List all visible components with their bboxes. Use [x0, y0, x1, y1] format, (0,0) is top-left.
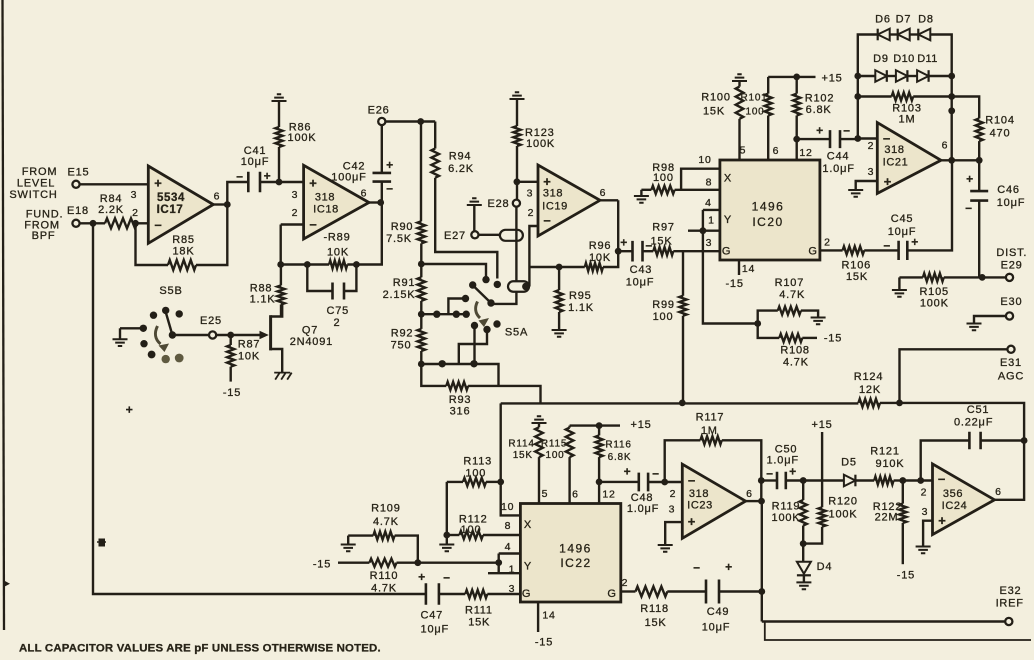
svg-text:Y: Y — [724, 214, 732, 226]
svg-text:+: + — [620, 236, 628, 250]
op-amp U IC24 356 — [933, 464, 995, 535]
junction C49 E32 — [758, 588, 765, 595]
svg-text:+: + — [386, 158, 394, 172]
junction D4 node — [800, 540, 807, 547]
switch S5A bottom dots — [439, 360, 478, 367]
resistor R119 — [772, 481, 807, 544]
svg-text:IC21: IC21 — [883, 157, 909, 169]
svg-text:15K: 15K — [645, 617, 667, 629]
resistor R89 — [323, 232, 350, 269]
pin label 2 IC18 — [292, 207, 299, 219]
resistor R110 — [338, 559, 418, 595]
pin label 3 IC18 — [292, 189, 299, 201]
svg-text:6: 6 — [361, 188, 368, 200]
stray mark left edge — [4, 581, 10, 587]
capacitor C43 — [618, 236, 654, 289]
svg-text:6.8K: 6.8K — [608, 452, 632, 463]
ground R98 — [634, 190, 649, 203]
svg-text:+: + — [624, 465, 632, 479]
svg-text:FROM: FROM — [22, 166, 58, 178]
svg-text:100: 100 — [545, 450, 564, 461]
node E28 label — [488, 198, 510, 210]
svg-text:4: 4 — [505, 541, 512, 553]
capacitor C46 — [965, 160, 1025, 277]
svg-text:3: 3 — [922, 506, 929, 518]
junction C48 pin2 — [661, 479, 668, 486]
switch S5A contact E loop — [448, 295, 469, 314]
pin label 10 IC20 — [698, 154, 711, 166]
svg-text:D9: D9 — [873, 53, 889, 65]
label FROM LEVEL SWITCH — [9, 166, 57, 201]
wire E32 line — [762, 620, 1005, 622]
switch S5B contacts — [140, 307, 183, 359]
node E26 label — [368, 105, 390, 117]
resistor R102 — [793, 77, 834, 160]
ground E30 — [967, 316, 1006, 330]
svg-text:R124: R124 — [854, 371, 884, 383]
switch S5A contact G loop — [459, 326, 491, 364]
wire IC20 pin10 jumper — [681, 169, 720, 190]
transistor Q7 2N4091 — [260, 304, 334, 372]
svg-text:3: 3 — [292, 189, 299, 201]
pin label 6 IC21 — [942, 140, 949, 152]
svg-text:18K: 18K — [173, 246, 195, 258]
svg-text:3: 3 — [669, 504, 676, 516]
svg-text:G: G — [522, 588, 531, 600]
svg-text:+: + — [309, 176, 317, 191]
junction +15 R116 — [596, 422, 603, 429]
wire IC18 pin2 — [281, 225, 304, 265]
junction rail R99 — [679, 400, 686, 407]
svg-text:G: G — [808, 246, 817, 258]
svg-text:+: + — [418, 570, 426, 584]
pin label 6 IC20 — [773, 145, 780, 157]
pin label 2 IC22 — [622, 577, 629, 589]
svg-text:R111: R111 — [465, 604, 493, 616]
wire R84 to IC17 pin2 — [137, 222, 148, 224]
diode D5 — [841, 456, 857, 486]
resistor R90 — [386, 122, 425, 265]
svg-text:100K: 100K — [772, 512, 801, 524]
diode D11 — [917, 53, 938, 82]
wire output up to C41 — [227, 182, 248, 205]
svg-text:15K: 15K — [651, 236, 673, 248]
junction IC23 output — [758, 498, 765, 505]
junction R112 ground — [443, 532, 450, 539]
pin label 3 IC21 — [868, 166, 875, 178]
terminal E30 — [1006, 312, 1013, 319]
svg-text:4.7K: 4.7K — [779, 289, 805, 301]
junction E18 rail — [90, 220, 97, 227]
svg-text:E18: E18 — [67, 205, 89, 217]
svg-text:E31: E31 — [1000, 357, 1022, 369]
diode D8 — [918, 14, 934, 41]
wire IC18 output node — [369, 201, 382, 203]
ground D4 — [796, 582, 811, 589]
pin label 6 IC18 — [361, 188, 368, 200]
svg-text:R121: R121 — [870, 446, 900, 458]
wire Y input IC22 — [418, 562, 499, 564]
switch S5B label — [159, 285, 182, 297]
svg-text:IC20: IC20 — [752, 215, 783, 229]
power label -15 IC20 — [725, 278, 743, 290]
svg-text:6: 6 — [214, 191, 221, 203]
pin label 6 IC17 — [214, 191, 221, 203]
resistor R105 — [899, 273, 1006, 309]
terminal E15 — [72, 181, 79, 188]
svg-text:-15: -15 — [725, 278, 743, 290]
switch S5B rotate arrow — [155, 326, 169, 352]
ground R109 — [341, 536, 356, 552]
resistor R101 — [740, 77, 771, 160]
wire pin10 IC22 — [501, 482, 521, 516]
svg-text:R113: R113 — [463, 456, 492, 468]
ground R123 — [510, 92, 525, 99]
wire E28 to wiper pivot — [491, 207, 516, 304]
svg-text:R114: R114 — [508, 439, 534, 450]
diode D7 — [896, 14, 912, 41]
ground R107 — [811, 318, 826, 325]
terminal E26 — [378, 118, 385, 125]
svg-text:318: 318 — [315, 192, 335, 204]
pin label 2 IC21 — [868, 140, 875, 152]
svg-text:–: – — [236, 169, 243, 183]
pin label 5 IC22 — [542, 488, 549, 500]
power label -15 R122 — [897, 570, 915, 582]
svg-text:10μF: 10μF — [626, 277, 655, 289]
node E25 label — [200, 315, 222, 327]
svg-text:E30: E30 — [1000, 296, 1022, 308]
svg-text:8: 8 — [505, 520, 512, 532]
svg-text:1.1K: 1.1K — [250, 294, 276, 306]
svg-text:+: + — [966, 172, 974, 186]
svg-text:C43: C43 — [630, 264, 653, 276]
svg-text:2: 2 — [132, 207, 139, 219]
switch S5B contacts olive — [162, 354, 184, 364]
junction C43 tap — [615, 248, 622, 255]
svg-text:4: 4 — [705, 197, 712, 209]
wire output down to C49 E32 — [761, 501, 763, 621]
switch S5A contact F — [471, 322, 478, 364]
junction IC17 output — [224, 201, 231, 208]
svg-text:–: – — [309, 217, 317, 232]
junction R119 top — [800, 477, 807, 484]
wire R121 to pin2 — [903, 479, 933, 481]
diode D6 — [875, 14, 891, 41]
wire E15 to IC17 pin3 — [80, 183, 149, 185]
label FUND. FROM BPF — [24, 209, 63, 243]
pin label 12 IC20 — [799, 147, 812, 159]
wire E26 node — [385, 120, 435, 122]
svg-text:-15: -15 — [824, 333, 842, 345]
svg-text:15K: 15K — [513, 450, 533, 461]
resistor R107 — [758, 277, 818, 324]
svg-text:R104: R104 — [985, 114, 1015, 126]
junction feedback left — [277, 261, 284, 268]
node DIST E29 label — [996, 247, 1027, 272]
svg-text:IC24: IC24 — [942, 500, 968, 512]
ground R100 — [732, 74, 747, 81]
wire wiper to E25 — [172, 334, 209, 336]
wire +15 rail top — [768, 76, 815, 78]
pin label 2 IC23 — [670, 488, 677, 500]
svg-text:D7: D7 — [896, 14, 912, 26]
pin label 8 IC20 — [706, 177, 713, 189]
resistor R87 — [227, 335, 260, 382]
svg-text:2: 2 — [622, 577, 629, 589]
svg-text:R95: R95 — [569, 290, 592, 302]
switch S5A wiper — [474, 286, 495, 307]
svg-text:+: + — [816, 124, 824, 138]
resistor R108 — [758, 324, 817, 369]
power label -15 R87 — [223, 387, 241, 399]
svg-text:+: + — [154, 176, 162, 191]
svg-text:316: 316 — [450, 406, 471, 418]
svg-text:1M: 1M — [899, 114, 916, 126]
junction Y node IC20 — [700, 227, 707, 234]
junction rail E31 — [896, 400, 903, 407]
wire long rail E18 down to C47 — [93, 223, 426, 594]
scan border line left — [3, 0, 5, 630]
node E18 label — [67, 205, 89, 217]
pin label 4 IC20 — [705, 197, 712, 209]
ground E27 — [467, 198, 482, 231]
wire IC21 output — [941, 159, 979, 161]
plug capsule P1 — [500, 230, 523, 241]
svg-text:E25: E25 — [200, 315, 222, 327]
ground R86 — [272, 94, 287, 101]
svg-text:–: – — [843, 123, 850, 137]
pin label 6 IC24 — [995, 486, 1002, 498]
node E32 IREF label — [996, 585, 1024, 610]
svg-text:R91: R91 — [393, 277, 416, 289]
svg-text:14: 14 — [542, 610, 555, 622]
wire C50 to D5 — [786, 479, 844, 481]
pin label 14 IC20 — [742, 263, 755, 275]
svg-text:R100: R100 — [701, 92, 731, 104]
junction IC21 output — [948, 157, 955, 164]
capacitor C75 — [307, 265, 356, 330]
svg-text:1496: 1496 — [752, 200, 785, 214]
junction IC17 pin2 — [132, 220, 139, 227]
svg-text:E28: E28 — [488, 198, 510, 210]
resistor R124 — [854, 371, 884, 407]
junction C44 tap — [793, 136, 800, 143]
plug capsule P2 — [508, 281, 529, 292]
svg-text:E15: E15 — [68, 167, 90, 179]
junction R104 branch — [948, 107, 955, 114]
op-amp U IC23 318 — [682, 464, 745, 538]
svg-text:10μF: 10μF — [421, 623, 450, 635]
svg-text:6.8K: 6.8K — [806, 104, 832, 116]
junction R121 R122 — [899, 477, 906, 484]
svg-text:10: 10 — [698, 154, 711, 166]
resistor R86 — [275, 101, 316, 182]
svg-text:6: 6 — [942, 140, 949, 152]
svg-text:R109: R109 — [371, 503, 401, 515]
resistor R95 — [556, 267, 594, 330]
op-amp U IC21 318 — [877, 123, 941, 194]
svg-text:R94: R94 — [449, 151, 472, 163]
svg-text:10K: 10K — [589, 252, 611, 264]
node E30 label — [1000, 296, 1022, 308]
svg-text:–: – — [543, 213, 551, 228]
wire D11 to rail — [929, 75, 952, 77]
capacitor C49 — [693, 560, 733, 634]
junction C50 tap — [758, 477, 765, 484]
svg-text:R115: R115 — [541, 439, 567, 450]
svg-text:+15: +15 — [811, 419, 832, 431]
svg-text:+: + — [789, 465, 797, 479]
svg-text:10K: 10K — [238, 351, 260, 363]
svg-text:-15: -15 — [313, 559, 331, 571]
junction R87 — [227, 332, 234, 339]
junction IC18 output — [377, 199, 384, 206]
pin label 14 IC22 — [542, 610, 555, 622]
resistor R99 — [652, 251, 686, 403]
junction R103 right — [948, 93, 955, 100]
svg-text:BPF: BPF — [32, 230, 56, 242]
svg-text:R93: R93 — [449, 394, 472, 406]
junction C51 right — [1021, 437, 1028, 444]
wire AGC rail — [501, 403, 1024, 441]
capacitor C48 — [599, 465, 682, 516]
svg-text:E26: E26 — [368, 105, 390, 117]
wire C49 to E32 node — [719, 590, 762, 592]
node E27 label — [444, 230, 466, 242]
svg-text:2: 2 — [824, 237, 831, 249]
wire S5A bottom row — [421, 364, 498, 386]
svg-text:6: 6 — [773, 145, 780, 157]
svg-text:100K: 100K — [920, 297, 949, 309]
ground Q7 source — [274, 373, 292, 380]
wire Y to R107 R108 — [703, 231, 758, 324]
node E15 label — [68, 167, 90, 179]
switch S5A contact B — [469, 281, 476, 288]
svg-text:10: 10 — [501, 501, 514, 513]
svg-text:ALL CAPACITOR VALUES ARE pF UN: ALL CAPACITOR VALUES ARE pF UNLESS OTHER… — [19, 643, 381, 655]
svg-text:D5: D5 — [841, 456, 857, 468]
pin label 2 IC19 — [528, 207, 535, 219]
svg-text:C47: C47 — [421, 610, 444, 622]
svg-text:10μF: 10μF — [702, 622, 731, 634]
svg-text:–: – — [688, 473, 696, 488]
wire E31 branch — [900, 349, 1008, 403]
svg-text:6: 6 — [746, 488, 753, 500]
junction R107 R108 — [754, 320, 761, 327]
pin label 5 IC20 — [740, 145, 747, 157]
svg-text:2: 2 — [333, 317, 340, 329]
svg-text:R97: R97 — [652, 222, 675, 234]
svg-text:3: 3 — [131, 189, 138, 201]
svg-text:R116: R116 — [605, 440, 631, 451]
junction Y node IC22 — [495, 559, 502, 566]
svg-text:1.0μF: 1.0μF — [627, 503, 659, 515]
svg-text:100K: 100K — [526, 138, 555, 150]
junction C75 right — [353, 261, 360, 268]
svg-text:100K: 100K — [829, 509, 858, 521]
svg-text:–: – — [883, 238, 890, 252]
svg-text:7.5K: 7.5K — [386, 233, 412, 245]
wire D7 D8 — [909, 33, 918, 35]
svg-text:X: X — [724, 173, 732, 185]
IC22 pin14 stub — [537, 602, 539, 632]
svg-text:100: 100 — [461, 524, 482, 536]
wire +15 R115 R116 — [570, 424, 620, 426]
terminal E18 — [72, 220, 79, 227]
resistor R84 — [98, 193, 137, 228]
svg-text:S5A: S5A — [505, 327, 528, 339]
svg-text:Q7: Q7 — [302, 325, 318, 337]
svg-text:AGC: AGC — [998, 370, 1024, 382]
svg-text:R88: R88 — [250, 282, 273, 294]
svg-text:10μF: 10μF — [997, 197, 1026, 209]
resistor R92 — [391, 314, 425, 364]
svg-text:D6: D6 — [875, 14, 891, 26]
svg-text:–: – — [693, 560, 700, 574]
svg-text:910K: 910K — [876, 458, 905, 470]
plug tip P2 — [522, 283, 530, 291]
pin label 10 IC22 — [501, 501, 514, 513]
svg-text:+: + — [688, 514, 696, 529]
node E31 AGC label — [998, 357, 1024, 382]
svg-text:10μF: 10μF — [888, 226, 917, 238]
resistor R122 — [873, 481, 907, 565]
svg-text:E32: E32 — [1000, 585, 1022, 597]
svg-text:2: 2 — [528, 207, 535, 219]
junction R95 R96 — [556, 264, 563, 271]
wire diode rail left — [858, 35, 878, 139]
svg-text:318: 318 — [689, 488, 709, 500]
svg-text:2: 2 — [670, 488, 677, 500]
terminal E28 — [513, 200, 520, 207]
svg-text:X: X — [524, 519, 532, 531]
svg-text:C51: C51 — [967, 404, 990, 416]
ground R105 — [892, 277, 907, 296]
svg-text:IC18: IC18 — [313, 204, 339, 216]
diode D4 — [797, 544, 832, 583]
terminal E25 — [209, 331, 216, 338]
svg-text:C46: C46 — [997, 184, 1020, 196]
svg-text:R118: R118 — [640, 603, 669, 615]
switch S5A contact D — [494, 281, 501, 288]
svg-text:D8: D8 — [918, 14, 934, 26]
svg-text:+: + — [938, 513, 946, 528]
svg-text:R108: R108 — [780, 345, 810, 357]
diode D9 — [873, 53, 889, 82]
svg-text:IC23: IC23 — [687, 500, 713, 512]
svg-text:R85: R85 — [172, 234, 195, 246]
svg-text:6: 6 — [572, 489, 579, 501]
wire E27 to plug — [479, 234, 500, 236]
svg-text:+15: +15 — [821, 72, 842, 84]
svg-text:R102: R102 — [805, 92, 835, 104]
junction C75 left — [304, 261, 311, 268]
pin label 6 IC23 — [746, 488, 753, 500]
ground S5B — [113, 328, 128, 346]
svg-text:R96: R96 — [589, 240, 612, 252]
svg-text:1496: 1496 — [559, 542, 592, 556]
svg-text:R87: R87 — [238, 339, 261, 351]
svg-text:LEVEL: LEVEL — [17, 178, 55, 190]
diode D10 — [893, 53, 914, 82]
svg-text:3: 3 — [527, 188, 534, 200]
svg-text:C45: C45 — [891, 213, 914, 225]
junction IC21 pin2 node — [854, 135, 861, 142]
terminal E27 — [471, 231, 478, 238]
svg-text:1.0μF: 1.0μF — [822, 163, 854, 175]
stray mark small plus — [126, 406, 133, 413]
